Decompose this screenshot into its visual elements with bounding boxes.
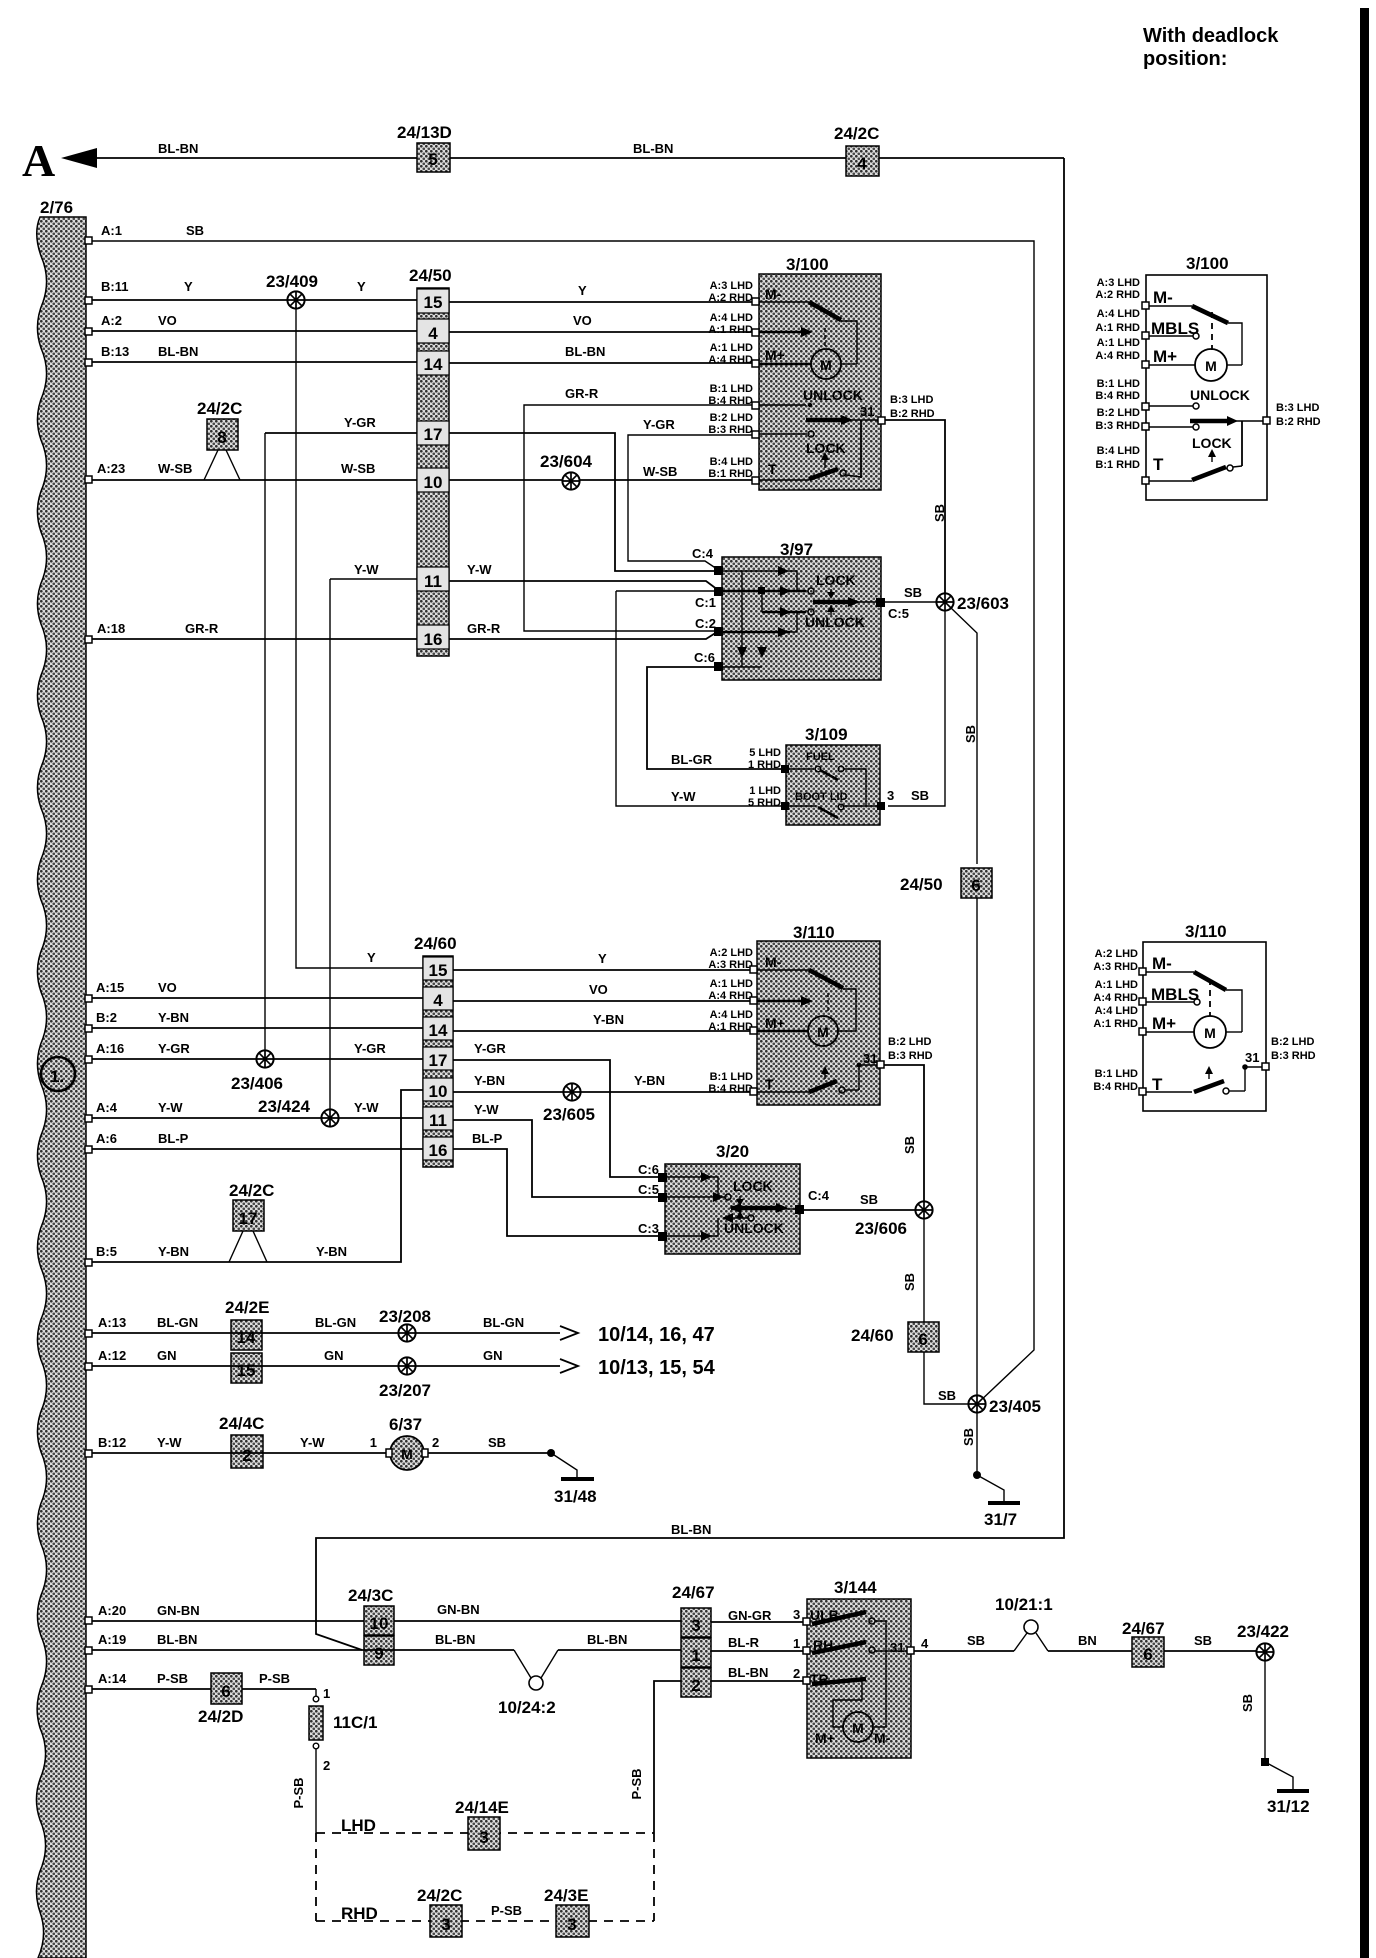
wire A:2 VO to 24/50 pin 4 [85, 313, 417, 335]
svg-text:B:2 LHD: B:2 LHD [710, 412, 753, 424]
wire SB from 6/37 to ground 31/48 [428, 1435, 594, 1479]
svg-text:2: 2 [432, 1435, 439, 1450]
svg-text:GR-R: GR-R [565, 386, 599, 401]
svg-text:9: 9 [374, 1644, 383, 1663]
svg-text:B:1 RHD: B:1 RHD [1095, 459, 1140, 471]
svg-text:B:2 RHD: B:2 RHD [1276, 416, 1321, 428]
svg-text:11: 11 [429, 1111, 447, 1130]
svg-text:23/603: 23/603 [957, 594, 1009, 613]
svg-text:23/605: 23/605 [543, 1105, 595, 1124]
motor 6/37 central locking [370, 1415, 439, 1470]
svg-text:3/100: 3/100 [1186, 254, 1229, 273]
svg-text:3/110: 3/110 [793, 923, 835, 942]
inset 3/100 pins [1142, 302, 1270, 484]
svg-text:3/144: 3/144 [834, 1578, 877, 1597]
3/20 pin labels [638, 1162, 878, 1236]
svg-text:C:5: C:5 [638, 1182, 659, 1197]
svg-text:BL-BN: BL-BN [728, 1665, 768, 1680]
svg-text:B:2 LHD: B:2 LHD [1097, 407, 1140, 419]
splice 23/409 [266, 272, 318, 309]
svg-text:A:12: A:12 [98, 1348, 126, 1363]
wire B:11 Y to 24/50 pin 15 [85, 279, 417, 304]
svg-text:A:4 LHD: A:4 LHD [710, 312, 753, 324]
svg-text:23/406: 23/406 [231, 1074, 283, 1093]
wire Y-GR 24/50 pin17 jog down to 3/97 C:4 [449, 433, 714, 571]
svg-text:24/2C: 24/2C [834, 124, 879, 143]
svg-text:B:1 LHD: B:1 LHD [1097, 378, 1140, 390]
svg-text:FUEL: FUEL [806, 751, 835, 763]
svg-text:A:4 RHD: A:4 RHD [708, 354, 753, 366]
svg-text:24/13D: 24/13D [397, 123, 452, 142]
svg-text:11C/1: 11C/1 [333, 1713, 377, 1732]
svg-text:A:1 RHD: A:1 RHD [1093, 1018, 1138, 1030]
svg-text:A:1 LHD: A:1 LHD [1095, 979, 1138, 991]
3/100 internals: switch blade to pin 31 [806, 415, 878, 478]
wire A:15 VO to 24/60 pin 4 [85, 980, 423, 1002]
svg-text:B:4 LHD: B:4 LHD [710, 456, 753, 468]
svg-text:GN-GR: GN-GR [728, 1608, 772, 1623]
3/20 pins [658, 1173, 804, 1241]
svg-text:23/422: 23/422 [1237, 1622, 1289, 1641]
svg-text:C:6: C:6 [694, 650, 715, 665]
connector 24/2C pin 8 with fork [197, 399, 242, 480]
3/109 internals [789, 751, 877, 818]
svg-text:RHD: RHD [341, 1904, 378, 1923]
svg-text:M: M [852, 1720, 864, 1736]
svg-text:B:2 LHD: B:2 LHD [1271, 1036, 1314, 1048]
svg-text:23/207: 23/207 [379, 1381, 431, 1400]
svg-text:17: 17 [424, 425, 443, 444]
svg-text:31: 31 [860, 404, 874, 419]
wire Y-GR upper to 24/50 pin 17 [265, 415, 417, 433]
svg-text:M-: M- [874, 1730, 891, 1746]
wire BL-P 24/60 pin16 to 3/20 C:3 [453, 1131, 661, 1236]
svg-text:M: M [401, 1446, 413, 1462]
3/110 pins [750, 966, 884, 1095]
svg-text:LOCK: LOCK [733, 1178, 773, 1194]
svg-text:M: M [1204, 1025, 1216, 1041]
svg-text:24/4C: 24/4C [219, 1414, 264, 1433]
svg-text:B:3 RHD: B:3 RHD [708, 424, 753, 436]
svg-text:A:6: A:6 [96, 1131, 117, 1146]
wire GR-R 24/50 pin16 to 3/97 C:2 [449, 621, 717, 639]
svg-text:C:2: C:2 [695, 616, 716, 631]
svg-text:C:1: C:1 [695, 595, 716, 610]
svg-text:BL-GN: BL-GN [157, 1315, 198, 1330]
svg-text:2: 2 [691, 1676, 700, 1695]
svg-text:MBLS: MBLS [1151, 319, 1199, 338]
svg-text:M-: M- [1152, 954, 1172, 973]
svg-text:A:1 RHD: A:1 RHD [1095, 322, 1140, 334]
svg-text:3: 3 [887, 788, 894, 803]
wire SB down from 24/50-6 to 23/405 [961, 898, 977, 1446]
svg-text:6: 6 [1143, 1645, 1152, 1664]
wire SB 24/67-6 to 23/422 [1164, 1633, 1257, 1651]
svg-text:24/50: 24/50 [900, 875, 943, 894]
svg-text:16: 16 [429, 1141, 448, 1160]
splice 23/405 [968, 1395, 1041, 1416]
svg-text:Y-GR: Y-GR [158, 1041, 190, 1056]
svg-text:P-SB: P-SB [157, 1671, 188, 1686]
splice 23/424 [258, 1097, 339, 1127]
svg-text:C:5: C:5 [888, 606, 909, 621]
svg-text:B:1 LHD: B:1 LHD [710, 1071, 753, 1083]
svg-text:SB: SB [1240, 1694, 1255, 1712]
svg-text:SB: SB [963, 725, 978, 743]
wire A:14 P-SB to 24/2D and fuse 11C/1 [85, 1671, 316, 1693]
wire SB 23/405 to ground 31/7 [973, 1412, 1020, 1503]
svg-text:A:2 RHD: A:2 RHD [708, 292, 753, 304]
svg-text:VO: VO [158, 980, 177, 995]
svg-text:B:1 RHD: B:1 RHD [708, 468, 753, 480]
svg-text:Y: Y [357, 279, 366, 294]
svg-text:A:15: A:15 [96, 980, 124, 995]
svg-text:Y-W: Y-W [354, 562, 379, 577]
svg-text:Y-BN: Y-BN [158, 1010, 189, 1025]
svg-text:10/13, 15, 54: 10/13, 15, 54 [598, 1357, 716, 1379]
3/100 pin labels LHD/RHD [708, 280, 934, 480]
svg-text:B:3 LHD: B:3 LHD [1276, 402, 1319, 414]
svg-text:B:4 RHD: B:4 RHD [1095, 390, 1140, 402]
svg-text:A:13: A:13 [98, 1315, 126, 1330]
svg-text:6: 6 [221, 1682, 230, 1701]
wire Y-W branch vertical from upper section [329, 579, 331, 1110]
svg-text:14: 14 [429, 1021, 448, 1040]
svg-text:A:4 LHD: A:4 LHD [1095, 1005, 1138, 1017]
svg-text:LOCK: LOCK [816, 572, 856, 588]
svg-text:A:3 RHD: A:3 RHD [1093, 961, 1138, 973]
svg-text:24/14E: 24/14E [455, 1798, 509, 1817]
svg-text:24/2C: 24/2C [229, 1181, 274, 1200]
svg-text:1: 1 [691, 1646, 700, 1665]
svg-text:Y-GR: Y-GR [354, 1041, 386, 1056]
svg-text:A:1 LHD: A:1 LHD [1097, 337, 1140, 349]
svg-text:GN: GN [157, 1348, 177, 1363]
3/100 internals: M- switch blade [759, 286, 857, 364]
svg-text:14: 14 [237, 1328, 256, 1347]
svg-text:C:4: C:4 [808, 1188, 830, 1203]
svg-text:UNLOCK: UNLOCK [805, 614, 865, 630]
svg-text:VO: VO [573, 313, 592, 328]
wire Y-BN 24/60 pin10 to 3/110 T [453, 1073, 753, 1092]
svg-text:A:1: A:1 [101, 223, 122, 238]
svg-text:1 RHD: 1 RHD [748, 759, 781, 771]
svg-text:A:2 RHD: A:2 RHD [1095, 289, 1140, 301]
wire A:23 W-SB to 24/50 pin 10 [85, 461, 417, 483]
svg-text:B:1 LHD: B:1 LHD [1095, 1068, 1138, 1080]
svg-text:A:1 LHD: A:1 LHD [710, 978, 753, 990]
connector 24/50 [409, 266, 452, 656]
svg-text:A:19: A:19 [98, 1632, 126, 1647]
svg-text:Y-BN: Y-BN [474, 1073, 505, 1088]
3/144 internals [810, 1607, 907, 1746]
svg-text:11: 11 [424, 572, 442, 591]
svg-text:A:4 RHD: A:4 RHD [1095, 350, 1140, 362]
svg-text:SB: SB [902, 1136, 917, 1154]
svg-text:31: 31 [863, 1051, 877, 1066]
svg-text:3/97: 3/97 [780, 540, 813, 559]
wire GR-R upper branch to 3/100 B:1 [524, 386, 758, 631]
svg-text:SB: SB [488, 1435, 506, 1450]
svg-text:4: 4 [433, 991, 443, 1010]
svg-text:1: 1 [793, 1636, 800, 1651]
connector 24/2D pin 6 [198, 1673, 243, 1726]
svg-text:A:14: A:14 [98, 1671, 127, 1686]
wire SB 23/603 down to 3/109 pin 3 [888, 610, 945, 806]
central locking switch 3/20 [665, 1142, 800, 1254]
svg-text:BL-BN: BL-BN [587, 1632, 627, 1647]
svg-text:31/12: 31/12 [1267, 1797, 1310, 1816]
svg-text:T: T [1152, 1075, 1163, 1094]
svg-text:UNLOCK: UNLOCK [1190, 387, 1250, 403]
svg-text:6/37: 6/37 [389, 1415, 422, 1434]
svg-text:6: 6 [971, 876, 980, 895]
connector 24/3E pin 3 [544, 1886, 589, 1937]
svg-text:Y-W: Y-W [157, 1435, 182, 1450]
svg-text:A:1 RHD: A:1 RHD [708, 1021, 753, 1033]
svg-text:10/21:1: 10/21:1 [995, 1595, 1053, 1614]
3/109 pins [781, 765, 885, 810]
svg-text:SB: SB [932, 504, 947, 522]
wire A:16 Y-GR to 24/60 pin 17 [85, 1041, 423, 1063]
wire SB 23/603 diagonal to 24/50 pin 6 chain [950, 607, 978, 864]
svg-text:5 RHD: 5 RHD [748, 797, 781, 809]
svg-text:GR-R: GR-R [185, 621, 219, 636]
splice 23/422 [1237, 1622, 1289, 1661]
svg-text:M-: M- [1153, 288, 1173, 307]
svg-text:Y-W: Y-W [158, 1100, 183, 1115]
svg-text:23/409: 23/409 [266, 272, 318, 291]
svg-text:M+: M+ [765, 347, 785, 363]
svg-text:Y-W: Y-W [354, 1100, 379, 1115]
lock motor 3/110 [757, 923, 880, 1105]
svg-text:A:4 RHD: A:4 RHD [708, 990, 753, 1002]
svg-text:23/405: 23/405 [989, 1397, 1041, 1416]
svg-text:P-SB: P-SB [629, 1768, 644, 1799]
svg-text:W-SB: W-SB [158, 461, 192, 476]
wire B:13 BL-BN to 24/50 pin 14 [85, 344, 417, 366]
connector 2/76 (left harness bar) [36, 198, 86, 1958]
svg-text:A:1 LHD: A:1 LHD [710, 342, 753, 354]
svg-text:24/60: 24/60 [414, 934, 457, 953]
svg-text:P-SB: P-SB [259, 1671, 290, 1686]
svg-text:5: 5 [428, 150, 437, 169]
wire P-SB RHD dashed run [316, 1833, 654, 1923]
wire SB 23/422 to ground 31/12 [1240, 1660, 1309, 1791]
svg-text:SB: SB [860, 1192, 878, 1207]
svg-text:Y-GR: Y-GR [474, 1041, 506, 1056]
svg-text:BL-BN: BL-BN [157, 1632, 197, 1647]
svg-text:GN-BN: GN-BN [437, 1602, 480, 1617]
svg-text:BL-GN: BL-GN [315, 1315, 356, 1330]
wire BL-BN 24/67-2 to 3/144 pin 2 [711, 1665, 803, 1681]
splice 23/406 [231, 1050, 283, 1093]
svg-text:SB: SB [911, 788, 929, 803]
svg-text:15: 15 [424, 293, 443, 312]
wire VO 24/60 pin4 to 3/110 [453, 982, 753, 1001]
svg-text:With deadlock: With deadlock [1143, 25, 1279, 47]
splice 23/605 [543, 1083, 595, 1124]
svg-text:B:4 RHD: B:4 RHD [1093, 1081, 1138, 1093]
connector 24/60 [414, 934, 457, 1167]
svg-text:1: 1 [370, 1435, 377, 1450]
wire Y-BN 24/60 pin14 to 3/110 M+ [453, 1012, 753, 1031]
svg-text:T: T [765, 1076, 774, 1092]
wire A:6 BL-P to 24/60 pin 16 [85, 1131, 423, 1153]
inset lock motor 3/110 [1143, 922, 1266, 1111]
3/100 internals: motor M [759, 347, 857, 379]
3/110 pin labels [708, 947, 932, 1095]
svg-text:24/2C: 24/2C [417, 1886, 462, 1905]
svg-text:15: 15 [429, 961, 448, 980]
svg-text:UNLOCK: UNLOCK [803, 387, 863, 403]
svg-text:24/3E: 24/3E [544, 1886, 588, 1905]
svg-text:A:4 RHD: A:4 RHD [1093, 992, 1138, 1004]
svg-text:P-SB: P-SB [291, 1777, 306, 1808]
svg-text:A:3 LHD: A:3 LHD [1097, 277, 1140, 289]
splice 23/207 [379, 1357, 431, 1400]
svg-text:10: 10 [429, 1082, 448, 1101]
3/109 pin labels [748, 747, 929, 809]
connector 24/4C pin 2 [219, 1414, 264, 1468]
splice 23/604 [540, 452, 593, 490]
inset 3/100 internals [1149, 288, 1263, 481]
svg-text:3: 3 [691, 1616, 700, 1635]
svg-text:SB: SB [1194, 1633, 1212, 1648]
page border right [1360, 8, 1369, 1958]
svg-text:24/67: 24/67 [672, 1583, 715, 1602]
svg-text:B:2: B:2 [96, 1010, 117, 1025]
svg-text:3/110: 3/110 [1185, 922, 1227, 941]
svg-text:BN: BN [1078, 1633, 1097, 1648]
connector 24/50 pin 6 [900, 868, 992, 898]
wire A:12 GN off page [85, 1348, 578, 1373]
svg-text:T: T [1153, 455, 1164, 474]
wire A:20 GN-BN to 24/67 pin 3 [85, 1602, 681, 1624]
svg-text:BOOT LID: BOOT LID [795, 791, 848, 803]
svg-text:GN-BN: GN-BN [157, 1603, 200, 1618]
svg-text:B:3 LHD: B:3 LHD [890, 394, 933, 406]
svg-text:B:3 RHD: B:3 RHD [888, 1050, 933, 1062]
svg-text:M-: M- [765, 286, 782, 302]
svg-text:4: 4 [921, 1636, 929, 1651]
3/100 internals: B:2 contact and LOCK [759, 431, 846, 468]
svg-text:C:6: C:6 [638, 1162, 659, 1177]
svg-text:Y: Y [578, 283, 587, 298]
wire Y branch down from 23/409 to 24/60 pin 15 [296, 307, 423, 968]
central locking unit 3/97 [722, 540, 881, 680]
wire A:1 SB [85, 223, 1034, 1404]
svg-text:10/14, 16, 47: 10/14, 16, 47 [598, 1324, 715, 1346]
svg-text:W-SB: W-SB [643, 464, 677, 479]
svg-text:Y-W: Y-W [474, 1102, 499, 1117]
svg-text:M+: M+ [1153, 347, 1177, 366]
svg-text:4: 4 [428, 324, 438, 343]
svg-text:SB: SB [961, 1428, 976, 1446]
svg-text:M: M [817, 1024, 829, 1040]
svg-text:24/2C: 24/2C [197, 399, 242, 418]
svg-text:GN: GN [483, 1348, 503, 1363]
svg-text:B:1 LHD: B:1 LHD [710, 383, 753, 395]
3/100 internals: MBLS arrow contact [759, 327, 813, 337]
wire Y-W branch down to 3/109 [616, 590, 714, 592]
connector 10/21:1 [995, 1595, 1053, 1651]
svg-text:M: M [820, 357, 832, 373]
svg-text:B:11: B:11 [101, 279, 128, 294]
wire VO 24/50 pin4 to 3/100 [449, 313, 755, 332]
svg-text:position:: position: [1143, 48, 1227, 70]
svg-text:BL-BN: BL-BN [565, 344, 605, 359]
connector 24/14E pin 3 [455, 1798, 509, 1850]
svg-text:3: 3 [479, 1828, 488, 1847]
connector 24/60 pin 6 [851, 1322, 939, 1352]
wire BL-BN 24/50 pin14 to 3/100 M+ [449, 344, 755, 363]
svg-text:M+: M+ [1152, 1014, 1176, 1033]
3/97 internals [723, 566, 876, 667]
svg-text:A:2 LHD: A:2 LHD [710, 947, 753, 959]
svg-text:BL-GR: BL-GR [671, 752, 713, 767]
svg-text:A: A [22, 135, 55, 186]
svg-text:24/3C: 24/3C [348, 1586, 393, 1605]
connector 24/67 pin 6 [1122, 1619, 1165, 1667]
connector 24/13D pin 5 [397, 123, 452, 172]
wire SB 23/606 down to 24/60 pin 6 [902, 1218, 924, 1322]
fuse 11C/1 [291, 1686, 377, 1833]
svg-text:BL-BN: BL-BN [633, 141, 673, 156]
svg-text:BL-BN: BL-BN [158, 141, 198, 156]
svg-text:Y-W: Y-W [671, 789, 696, 804]
svg-text:BL-GN: BL-GN [483, 1315, 524, 1330]
svg-text:24/50: 24/50 [409, 266, 452, 285]
boot lid lock motor 3/144 [807, 1578, 911, 1758]
svg-text:31/48: 31/48 [554, 1487, 597, 1506]
svg-text:B:4 RHD: B:4 RHD [708, 395, 753, 407]
wire Y-GR branch to 3/100 B:2 and C:4 [628, 417, 755, 569]
svg-text:17: 17 [239, 1209, 258, 1228]
wire GN-GR 24/67-3 to 3/144 pin 3 [711, 1607, 803, 1623]
svg-text:23/208: 23/208 [379, 1307, 431, 1326]
3/100 pins [752, 298, 885, 484]
svg-text:3/109: 3/109 [805, 725, 848, 744]
connector 24/2E pins 14 and 15 [225, 1298, 269, 1383]
wire B:5 Y-BN up to 24/60 pin 10 [85, 1090, 423, 1266]
svg-text:2: 2 [323, 1758, 330, 1773]
svg-text:A:1 RHD: A:1 RHD [708, 324, 753, 336]
connector 24/67 pins 3 1 2 [672, 1583, 715, 1697]
3/100 internals: T switch blade [759, 461, 861, 480]
svg-text:10: 10 [424, 473, 443, 492]
node marker circled 1 on 2/76 bar [41, 1057, 75, 1091]
wire Y-W 24/60 pin11 to 3/20 C:5 [453, 1102, 661, 1197]
svg-text:LHD: LHD [341, 1816, 376, 1835]
svg-text:B:4 LHD: B:4 LHD [1097, 445, 1140, 457]
svg-text:BL-BN: BL-BN [435, 1632, 475, 1647]
svg-text:Y-GR: Y-GR [643, 417, 675, 432]
3/20 internals [667, 1172, 795, 1241]
svg-text:6: 6 [918, 1330, 927, 1349]
svg-text:C:3: C:3 [638, 1221, 659, 1236]
svg-text:BL-BN: BL-BN [158, 344, 198, 359]
svg-text:SB: SB [186, 223, 204, 238]
svg-text:A:16: A:16 [96, 1041, 124, 1056]
wire BL-R 24/67-1 to 3/144 pin 1 [711, 1635, 803, 1651]
svg-text:M: M [1205, 358, 1217, 374]
svg-text:Y: Y [367, 950, 376, 965]
svg-text:A:18: A:18 [97, 621, 125, 636]
3/144 pins [803, 1618, 914, 1684]
svg-text:A:3 RHD: A:3 RHD [708, 959, 753, 971]
svg-text:B:4 RHD: B:4 RHD [708, 1083, 753, 1095]
